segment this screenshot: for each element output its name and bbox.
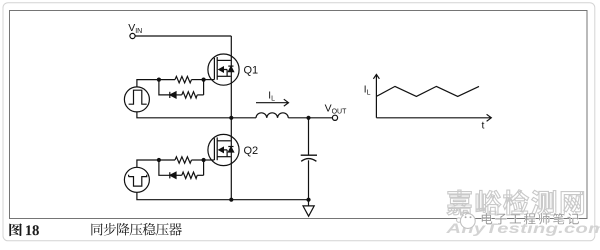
transistor Q1 (208, 54, 239, 85)
svg-text:Q1: Q1 (244, 65, 259, 77)
pulse source V2 (124, 167, 149, 192)
waveform IL ripple (376, 86, 479, 96)
node ground-rail mid (229, 198, 233, 202)
watermark 嘉峪检测网 outline (447, 190, 471, 215)
wire gate lead (204, 159, 215, 161)
transistor Q2 (208, 134, 239, 165)
caption figure number 图 18 (9, 223, 22, 236)
wire right branch up to gate node (203, 160, 205, 175)
resistor R2 (176, 92, 204, 98)
node gate-right (202, 78, 206, 82)
ground (303, 200, 314, 217)
wire V2 return to ground rail (137, 192, 231, 199)
terminal VOUT (332, 115, 337, 120)
wire left branch down (159, 160, 170, 175)
resistor R4 (176, 172, 204, 178)
node gate-left (157, 158, 161, 162)
wire VIN top rail (135, 35, 231, 37)
graph x-axis t (376, 114, 491, 121)
wire switch node to inductor (231, 117, 256, 119)
resistor R1 (159, 76, 204, 82)
wire ground rail (231, 199, 308, 201)
svg-text:Q2: Q2 (244, 145, 259, 157)
node gate-right (202, 158, 206, 162)
wire capacitor to ground rail (308, 160, 310, 199)
wire V1 return to switch node (137, 112, 231, 118)
diode D2 (170, 172, 176, 178)
wire output node to capacitor (308, 118, 310, 155)
resistor R3 (159, 157, 204, 163)
wire inductor to output node (288, 117, 332, 119)
wire right branch up to gate node (203, 80, 205, 95)
watermark 电子工程师笔记 (482, 213, 492, 224)
watermark logo icon (457, 213, 476, 229)
capacitor C1 (301, 155, 317, 161)
wire source top to node (137, 160, 159, 167)
caption title 同步降压稳压器 (91, 223, 102, 235)
node ground-rail right (306, 198, 310, 202)
wire main vertical VIN to ground rail (230, 36, 232, 200)
node switch (229, 116, 233, 120)
diode D1 (170, 92, 176, 98)
inductor L1 (256, 113, 288, 118)
graph y-axis IL (373, 74, 379, 117)
node gate-left (157, 78, 161, 82)
pulse source V1 (124, 87, 149, 112)
terminal VIN (130, 33, 135, 38)
svg-text:t: t (482, 120, 485, 132)
wire left branch down (159, 80, 170, 95)
wire gate lead (204, 79, 215, 81)
arrow IL (256, 99, 289, 106)
node output (306, 116, 310, 120)
wire source top to node (137, 80, 159, 87)
